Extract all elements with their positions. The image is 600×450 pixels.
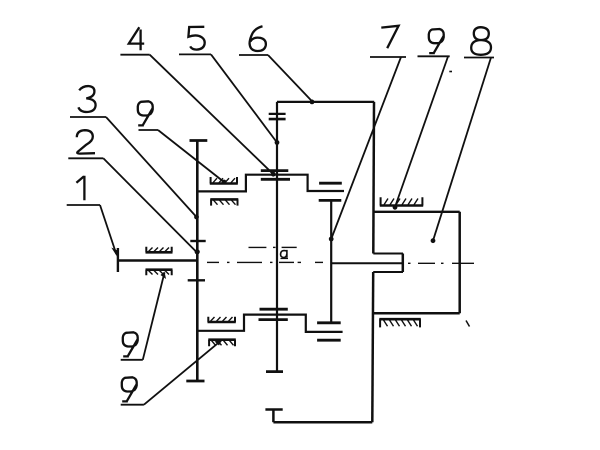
output coupling stub shaft [331, 262, 403, 264]
label 3 underline [70, 116, 106, 118]
label 7 leader dot [329, 237, 334, 242]
label 5 underline [179, 53, 211, 55]
center distance letter a [281, 250, 287, 258]
label 6 digit [250, 26, 266, 51]
input shaft 1 [117, 259, 197, 261]
stray tick right [466, 321, 470, 327]
label 8 leader dot [431, 238, 436, 243]
label 9 (upper carrier bearing) leader line [158, 130, 224, 182]
planet gear 7 bottom rim bar [317, 339, 341, 342]
label 9 (output bearing) leader dot [393, 205, 398, 210]
output box 8 top edge [373, 211, 460, 213]
gear wheel 3 (large input gear) vertical line [196, 141, 199, 382]
carrier arm top contour [197, 175, 344, 192]
label 6 leader line [268, 55, 312, 101]
planet gear 7 shaft [330, 200, 332, 322]
label 9 (input lower bearing) arrowhead [161, 272, 167, 280]
label 1 underline [67, 204, 100, 206]
label 9 (upper carrier bearing) underline [139, 129, 159, 131]
planet gear 7 top T-cap [319, 199, 342, 202]
planet axis centerline dashes [249, 246, 297, 248]
label 8 underline [464, 57, 494, 59]
label 2 leader line [103, 158, 196, 252]
bearing 9 input lower [146, 270, 173, 276]
label 4 digit [129, 27, 144, 50]
bearing 9 carrier lower-top [208, 317, 236, 322]
label 1 leader line [100, 205, 116, 254]
output box 8 right edge [458, 212, 461, 313]
gear 3 bottom cap [186, 380, 204, 383]
clutch plate bar lower [269, 118, 286, 121]
label 9 (input lower bearing) underline [121, 359, 143, 361]
label 5 leader line [211, 54, 277, 142]
label 9 (upper carrier bearing) leader dot [222, 180, 227, 185]
carrier arm bottom contour [197, 315, 342, 332]
sun gear bottom rim lower bar [259, 318, 288, 321]
label 9 (output bearing) digit [429, 29, 444, 53]
output coupling slot right wall [402, 254, 405, 273]
label 9 (input lower bearing) leader line [143, 273, 165, 360]
gear 3 hub tick lower [188, 279, 205, 281]
central shaft bottom T-cap [266, 370, 283, 373]
bearing 9 carrier upper-top [210, 177, 238, 184]
central sun shaft [276, 102, 278, 372]
housing 6 top edge [277, 101, 374, 103]
label 8 leader line [433, 58, 491, 241]
housing 6 bottom T-stub [265, 408, 282, 411]
letter a underline [281, 258, 289, 260]
label 8 digit [471, 27, 491, 55]
output coupling slot bottom [373, 271, 403, 273]
stray speck top right [449, 71, 452, 73]
main centerline dash-dot [207, 261, 474, 264]
bearing 9 carrier lower-bottom [208, 340, 236, 347]
sun gear top rim upper bar [261, 169, 289, 172]
label 5 leader dot [275, 140, 280, 145]
housing 6 right edge lower segment [371, 272, 374, 422]
label 4 underline [120, 54, 149, 56]
bearing 9 output upper [380, 197, 423, 205]
label 9 (lower carrier bearing) digit [122, 377, 137, 401]
bearing 9 carrier upper-bottom [210, 199, 238, 205]
gear 3 top cap [190, 139, 208, 142]
label 4 leader line [150, 55, 274, 175]
output coupling slot top [373, 253, 403, 255]
output box 8 bottom edge [373, 312, 460, 315]
label 9 (lower carrier bearing) underline [121, 404, 144, 406]
label 9 (lower carrier bearing) arrowhead [215, 339, 223, 345]
label 4 leader dot [271, 172, 276, 177]
label 6 leader dot [310, 100, 315, 105]
clutch plate bar upper [269, 113, 286, 115]
label 2 underline [68, 157, 103, 159]
housing 6 bottom-left vertical [272, 410, 275, 423]
label 3 leader dot [194, 215, 199, 220]
planet gear 7 bottom T-cap [317, 321, 341, 324]
planet gear 7 top rim bar [319, 182, 342, 185]
label 6 underline [239, 54, 268, 56]
gear 3 hub tick upper [190, 240, 205, 242]
sun gear bottom rim upper bar [260, 308, 288, 311]
bearing 9 input upper [146, 247, 173, 253]
label 2 leader dot [195, 249, 200, 254]
label 3 digit [78, 86, 95, 112]
label 2 digit [77, 130, 95, 153]
label 7 underline [370, 56, 406, 58]
label 9 (output bearing) leader line [395, 57, 448, 208]
housing 6 bottom edge [273, 421, 372, 424]
label 1 digit [76, 176, 84, 200]
label 9 (output bearing) underline [418, 55, 450, 57]
housing 6 right edge upper segment [372, 102, 375, 254]
label 9 (input lower bearing) digit [123, 332, 138, 356]
input shaft end tick [117, 248, 119, 272]
label 5 digit [188, 27, 204, 50]
bearing 9 output lower [379, 319, 421, 327]
label 7 digit [381, 26, 398, 48]
label 9 (upper carrier bearing) digit [138, 101, 153, 125]
label 7 leader line [331, 57, 401, 239]
label 3 leader line [106, 117, 197, 217]
label 9 (lower carrier bearing) leader line [144, 340, 222, 405]
sun gear top rim lower bar [261, 178, 290, 181]
label 1 arrowhead [111, 248, 118, 257]
